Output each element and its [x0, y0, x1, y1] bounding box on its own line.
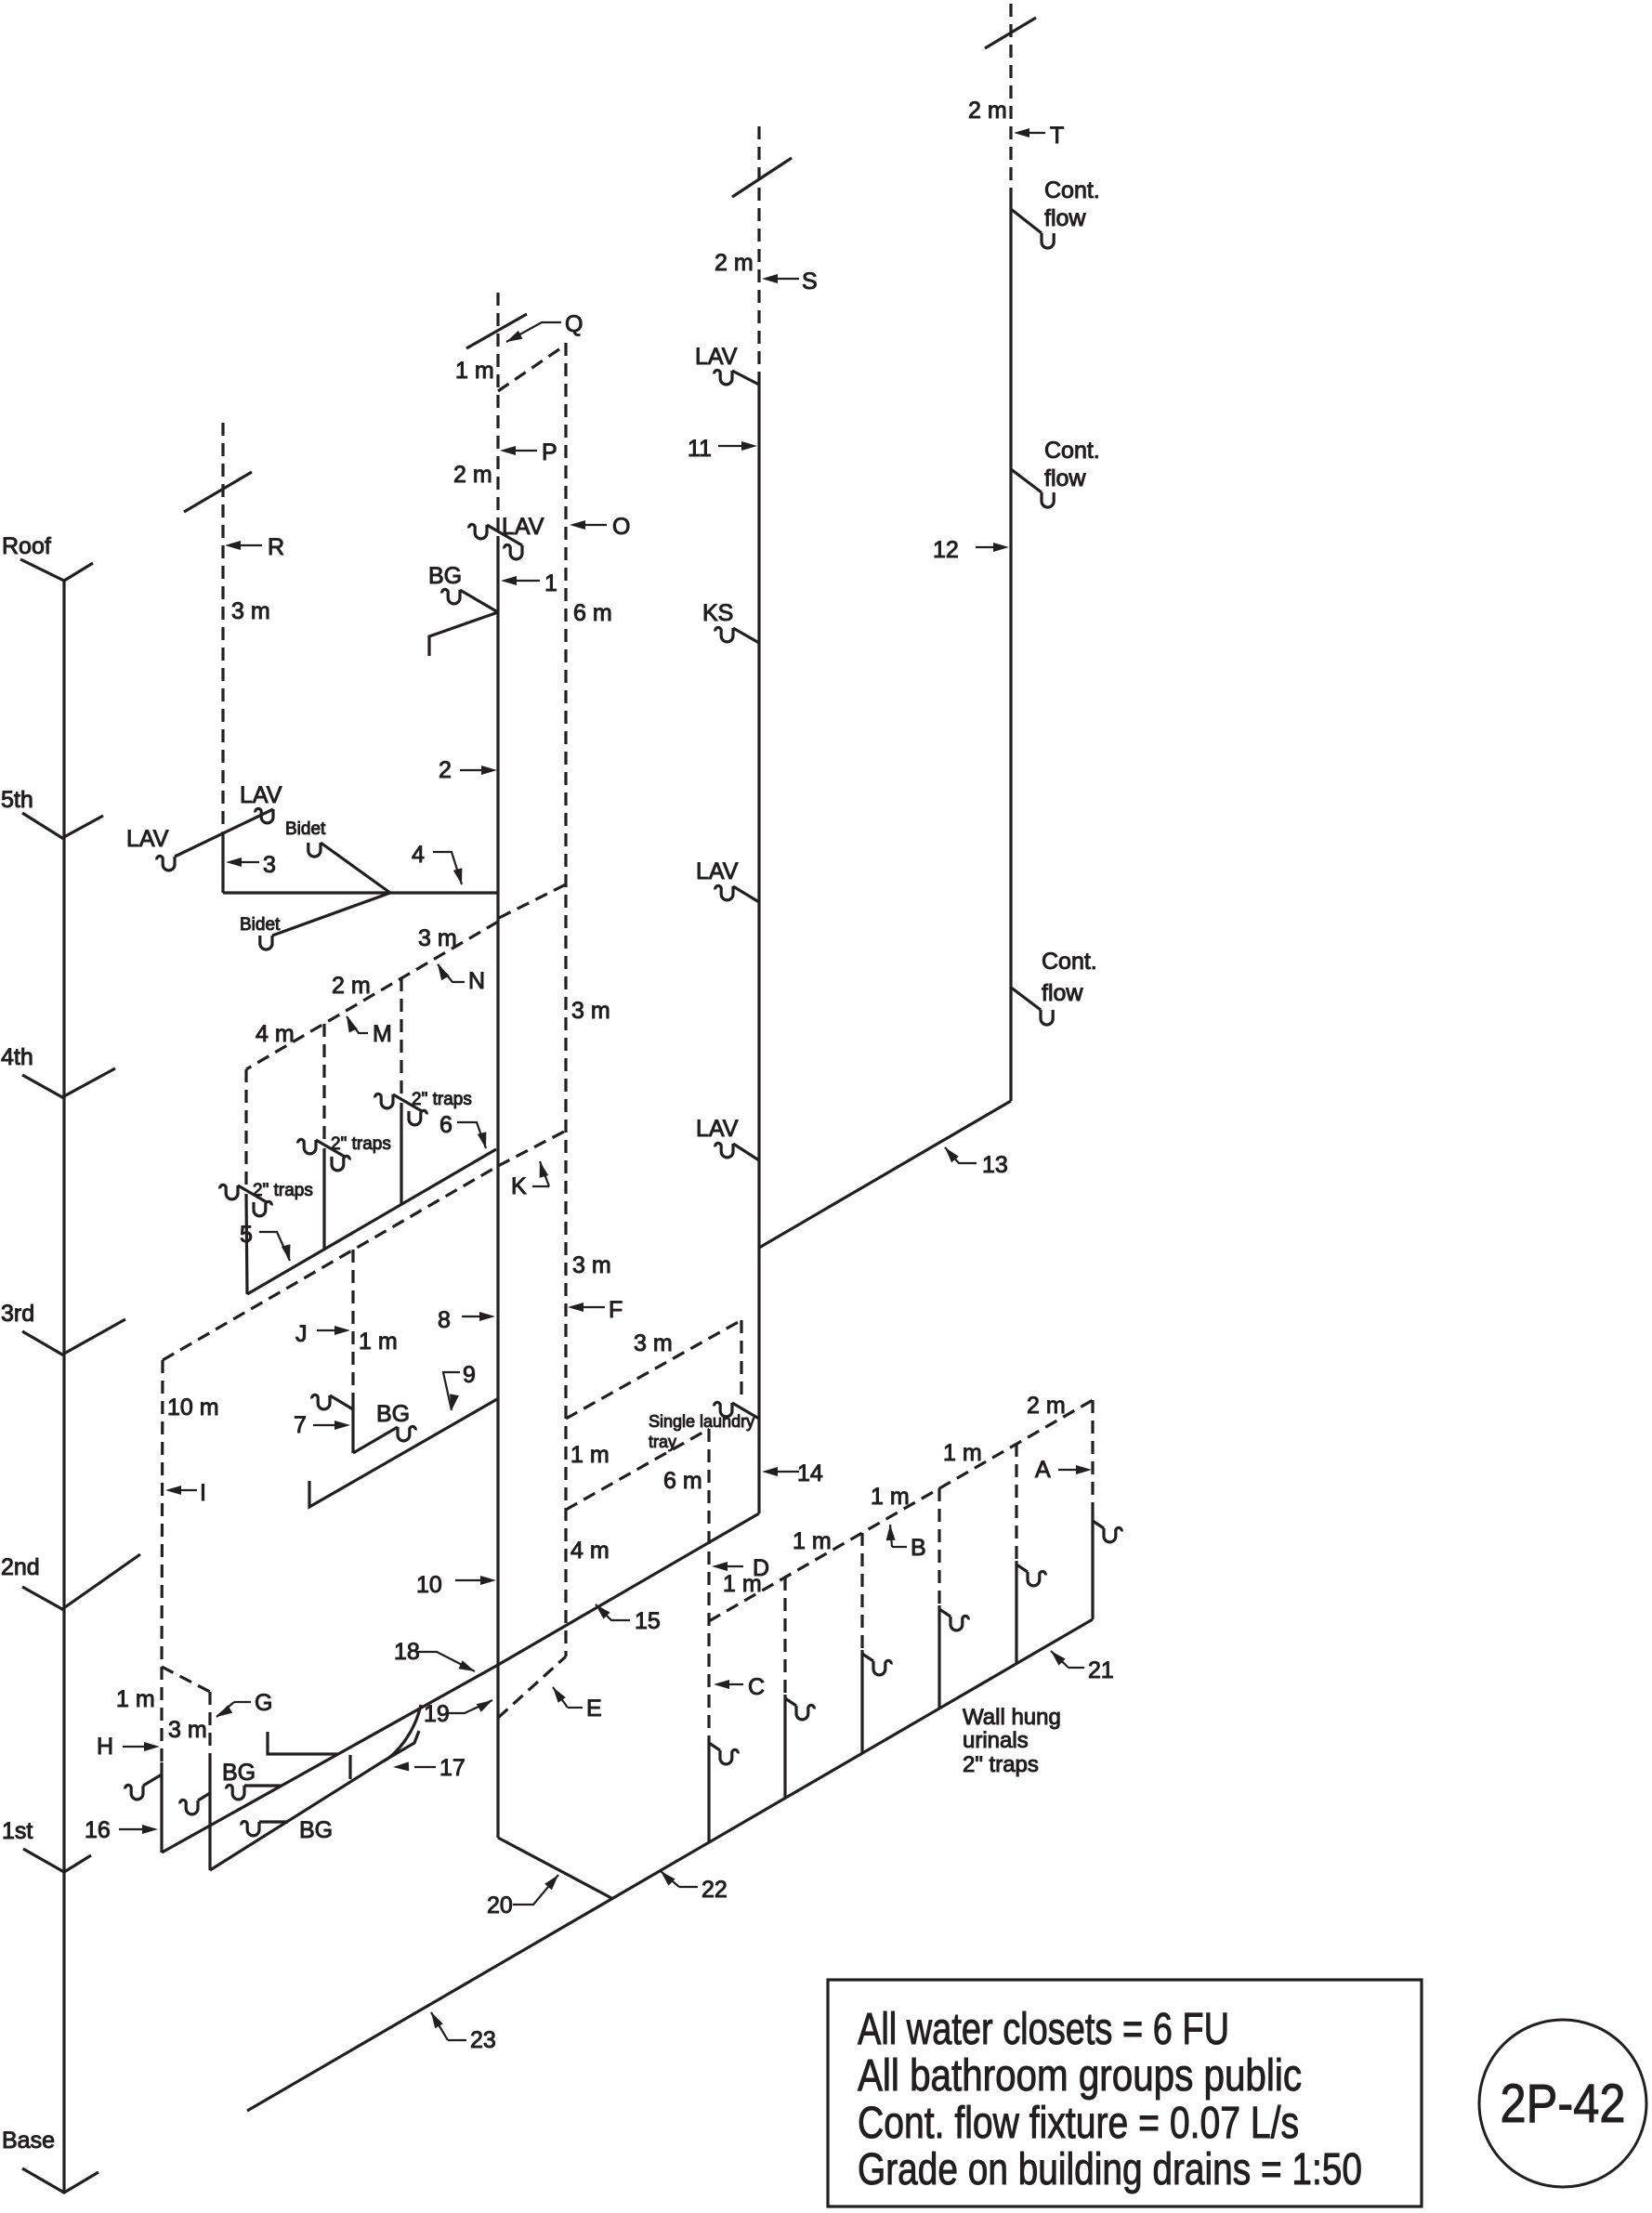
- svg-text:14: 14: [797, 1460, 823, 1486]
- svg-text:5th: 5th: [1, 787, 33, 813]
- BG3 connector stub: [353, 1427, 398, 1453]
- LAV pair branch stack1: [487, 525, 522, 545]
- fixture V2 trap pair: [298, 1139, 316, 1153]
- svg-text:2 m: 2 m: [332, 973, 371, 999]
- svg-text:2 m: 2 m: [715, 250, 754, 276]
- urinal 1 trap: [709, 1743, 720, 1750]
- stack S solid: [757, 385, 760, 1513]
- vent N connector to O line: [499, 884, 566, 918]
- vent T dashed riser: [1009, 4, 1012, 199]
- label 13 leader: [945, 1147, 977, 1163]
- svg-text:3 m: 3 m: [168, 1717, 207, 1743]
- urinal 3 vent dashed: [860, 1533, 863, 1650]
- pipe 17 branch (lower): [210, 1761, 383, 1870]
- Bidet 1 trap: [308, 843, 321, 857]
- svg-text:23: 23: [470, 2027, 496, 2053]
- laundry vent riser dashed: [740, 1320, 742, 1401]
- svg-text:LAV: LAV: [126, 826, 169, 852]
- cont flow 3 branch: [1010, 987, 1041, 1010]
- svg-text:4 m: 4 m: [256, 1021, 295, 1047]
- svg-text:10: 10: [416, 1572, 442, 1598]
- LAV trap on S low: [715, 1143, 733, 1157]
- vent I diagonal to stack: [163, 1166, 498, 1360]
- BG trap lower branch: [242, 1821, 259, 1835]
- svg-text:Single laundry: Single laundry: [649, 1412, 754, 1431]
- svg-text:Bidet: Bidet: [285, 819, 326, 839]
- floor tick Base: [22, 2168, 98, 2193]
- svg-text:1 m: 1 m: [871, 1484, 910, 1510]
- svg-text:O: O: [612, 514, 630, 540]
- svg-text:4th: 4th: [1, 1044, 33, 1070]
- BG3 trap: [398, 1426, 415, 1440]
- LAV trap upper: [256, 808, 273, 822]
- stack1 vent dashed (Q/P): [496, 293, 499, 536]
- LAV trap right stack1: [505, 544, 522, 558]
- vent Q break slash: [466, 314, 527, 348]
- urinal 4 vent dashed: [937, 1488, 940, 1605]
- laundry branch stub: [732, 1403, 759, 1419]
- floor reference spine: [62, 581, 65, 2193]
- svg-text:LAV: LAV: [696, 858, 739, 884]
- floor tick Roof: [20, 559, 93, 581]
- urinal 3 trap: [862, 1654, 873, 1661]
- fixture G trap: [180, 1800, 198, 1814]
- vent I riser dashed lower: [160, 1667, 163, 1762]
- pipe 5-6 branch diagonal: [247, 1149, 496, 1294]
- svg-text:G: G: [255, 1690, 272, 1716]
- fixture 7 branch: [330, 1395, 353, 1409]
- svg-text:3 m: 3 m: [572, 1252, 611, 1278]
- svg-text:3 m: 3 m: [571, 998, 610, 1024]
- pipe 17 wye curve: [383, 1705, 421, 1761]
- svg-text:H: H: [97, 1734, 113, 1760]
- vent O/F dashed riser: [564, 343, 567, 1656]
- pipe 16 branch (upper): [162, 1665, 498, 1853]
- floor tick 1st: [23, 1849, 91, 1872]
- svg-text:3rd: 3rd: [1, 1301, 34, 1327]
- vent D riser dashed: [707, 1429, 710, 1739]
- fixture G drain solid: [208, 1763, 211, 1870]
- cont flow 1 branch: [1011, 209, 1042, 233]
- Bidet 1 branch: [321, 843, 390, 893]
- arrow label 3: [237, 861, 259, 863]
- urinal 4 drain solid: [937, 1605, 940, 1709]
- urinal 5 drain solid: [1015, 1561, 1017, 1664]
- svg-text:flow: flow: [1044, 465, 1086, 491]
- fixture V3 trap pair: [375, 1093, 393, 1107]
- svg-text:3 m: 3 m: [634, 1330, 673, 1356]
- svg-text:5: 5: [240, 1222, 253, 1248]
- urinal vent header: [709, 1400, 1093, 1621]
- svg-text:C: C: [748, 1674, 765, 1700]
- svg-text:Cont.: Cont.: [1044, 438, 1100, 464]
- urinal 1 drain solid: [707, 1739, 710, 1842]
- svg-text:All water closets = 6 FU: All water closets = 6 FU: [858, 2005, 1229, 2054]
- arrow label 1: [512, 580, 540, 582]
- svg-text:2" traps: 2" traps: [963, 1752, 1039, 1777]
- vent R break slash: [184, 472, 252, 512]
- svg-text:20: 20: [487, 1892, 513, 1918]
- floor tick 2nd: [22, 1554, 140, 1609]
- arrow label A: [1058, 1469, 1081, 1471]
- svg-text:Base: Base: [2, 2128, 55, 2154]
- BG branch lower arm: [429, 612, 498, 656]
- vent N diagonal: [246, 922, 498, 1069]
- laundry trap: [715, 1402, 732, 1416]
- vent A drain solid: [1091, 1515, 1094, 1619]
- svg-text:1 m: 1 m: [793, 1528, 832, 1554]
- Bidet 2 branch: [272, 893, 390, 936]
- svg-text:Roof: Roof: [2, 533, 51, 559]
- vent A trap: [1093, 1521, 1104, 1528]
- svg-text:11: 11: [688, 436, 712, 462]
- svg-text:A: A: [1035, 1457, 1051, 1483]
- LAV trap on S mid: [715, 885, 733, 899]
- BG trap upper branch: [227, 1785, 244, 1799]
- LAV trap on S top: [715, 370, 732, 384]
- floor tick 4th: [22, 1068, 115, 1097]
- svg-text:K: K: [511, 1173, 527, 1199]
- svg-text:1 m: 1 m: [455, 358, 494, 384]
- arrow label 11: [718, 445, 746, 447]
- pipe 3 riser (solid): [221, 834, 224, 893]
- arrow label T: [1025, 132, 1045, 134]
- cont flow 2 branch: [1011, 469, 1042, 492]
- vent A dashed: [1091, 1400, 1094, 1515]
- urinal 5 vent dashed: [1015, 1444, 1017, 1561]
- svg-text:Grade on building drains = 1:5: Grade on building drains = 1:50: [858, 2145, 1362, 2194]
- svg-text:BG: BG: [299, 1817, 333, 1843]
- fixture V2 drain solid: [322, 1148, 325, 1250]
- arrow label P: [511, 450, 537, 452]
- svg-text:2" traps: 2" traps: [331, 1134, 391, 1154]
- svg-text:1 m: 1 m: [359, 1329, 398, 1355]
- vent K connector: [498, 1131, 566, 1166]
- WC tick upper branch: [268, 1732, 338, 1754]
- svg-text:BG: BG: [222, 1760, 256, 1786]
- vent R dashed riser: [221, 423, 224, 834]
- svg-text:B: B: [911, 1535, 926, 1561]
- vent T break slash: [985, 18, 1036, 48]
- svg-text:N: N: [468, 968, 485, 994]
- arrow label O: [581, 524, 607, 526]
- arrow label 8: [462, 1316, 484, 1317]
- svg-text:1 m: 1 m: [116, 1686, 155, 1712]
- svg-text:6: 6: [439, 1112, 452, 1138]
- svg-text:10 m: 10 m: [167, 1395, 219, 1421]
- svg-text:9: 9: [463, 1362, 476, 1388]
- svg-text:flow: flow: [1044, 205, 1086, 231]
- fixture H drain solid: [160, 1762, 163, 1853]
- arrow label C: [725, 1683, 743, 1685]
- arrow label H: [123, 1746, 149, 1748]
- floor tick 5th: [22, 813, 103, 838]
- svg-text:Cont.: Cont.: [1044, 177, 1100, 203]
- BG branch upper arm: [460, 590, 498, 612]
- vent E connector: [498, 1656, 566, 1718]
- svg-text:1 m: 1 m: [570, 1442, 610, 1468]
- svg-text:3 m: 3 m: [418, 925, 457, 951]
- pipe 20 elbow diagonal: [498, 1838, 613, 1899]
- svg-text:J: J: [295, 1321, 308, 1347]
- vent I riser dashed: [162, 1360, 163, 1667]
- pipe 21-22-23 building drain: [247, 1619, 1093, 2111]
- vent Q offset diagonal: [498, 345, 566, 391]
- svg-text:2" traps: 2" traps: [412, 1090, 472, 1109]
- svg-text:8: 8: [438, 1307, 451, 1333]
- svg-text:LAV: LAV: [696, 1116, 739, 1142]
- laundry vent horizontal run: [566, 1320, 741, 1419]
- fixture V2 vent dashed: [322, 1024, 325, 1140]
- pipe 15 diagonal: [498, 1513, 759, 1665]
- vent S break slash: [732, 158, 792, 197]
- BG trap: [442, 589, 460, 603]
- pipe 4 horizontal branch: [223, 891, 498, 894]
- svg-text:1: 1: [544, 570, 557, 596]
- legend box: [828, 1980, 1422, 2206]
- svg-text:2 m: 2 m: [1027, 1393, 1066, 1419]
- LAV trap lower: [157, 856, 175, 870]
- svg-text:19: 19: [424, 1701, 450, 1727]
- svg-text:I: I: [200, 1480, 206, 1506]
- svg-text:Wall hung: Wall hung: [963, 1705, 1061, 1730]
- svg-text:Cont. flow fixture = 0.07 L/s: Cont. flow fixture = 0.07 L/s: [858, 2099, 1299, 2148]
- svg-text:All bathroom groups public: All bathroom groups public: [858, 2051, 1302, 2101]
- LAV pair branch at R: [175, 809, 273, 857]
- svg-text:R: R: [268, 534, 284, 560]
- fixture V1 vent dashed: [244, 1069, 247, 1185]
- fixture V1 drain solid: [246, 1194, 247, 1294]
- arrow label S: [773, 278, 799, 280]
- fixture H trap: [125, 1785, 143, 1799]
- arrow label R: [236, 544, 262, 546]
- urinal 2 trap: [785, 1698, 796, 1706]
- urinal 5 trap: [1016, 1565, 1028, 1572]
- stack1 solid: [496, 536, 499, 1838]
- stack T solid: [1009, 199, 1012, 1101]
- vent D horizontal run: [566, 1429, 709, 1510]
- arrow label 10: [455, 1579, 485, 1581]
- sheet number circle: [1479, 2020, 1646, 2187]
- Bidet 2 trap: [260, 936, 272, 949]
- svg-text:4: 4: [412, 842, 425, 868]
- svg-text:7: 7: [294, 1412, 307, 1438]
- pipe 13 diagonal: [759, 1101, 1011, 1248]
- svg-text:13: 13: [982, 1152, 1008, 1178]
- label M leader: [347, 1016, 368, 1033]
- label 15 leader: [596, 1604, 630, 1620]
- svg-text:M: M: [373, 1021, 392, 1047]
- svg-text:F: F: [609, 1297, 623, 1323]
- svg-text:1 m: 1 m: [943, 1440, 982, 1466]
- svg-text:3: 3: [263, 852, 276, 878]
- vent S dashed riser: [757, 126, 760, 385]
- urinal 2 drain solid: [783, 1695, 786, 1798]
- svg-text:2 m: 2 m: [968, 98, 1007, 124]
- svg-text:15: 15: [635, 1608, 661, 1634]
- svg-text:2: 2: [439, 757, 452, 783]
- svg-text:LAV: LAV: [240, 782, 282, 808]
- urinal 3 drain solid: [860, 1650, 863, 1753]
- pipe 17 stub: [383, 1731, 419, 1761]
- fixture V1 trap pair: [220, 1185, 238, 1198]
- fixture J drain solid: [351, 1399, 354, 1453]
- svg-text:2nd: 2nd: [1, 1554, 40, 1580]
- svg-text:Cont.: Cont.: [1042, 949, 1097, 975]
- svg-text:BG: BG: [428, 563, 462, 589]
- svg-text:6 m: 6 m: [663, 1468, 702, 1494]
- svg-text:2 m: 2 m: [453, 462, 492, 488]
- vent J dashed: [351, 1250, 354, 1399]
- svg-text:S: S: [802, 268, 818, 295]
- svg-text:T: T: [1050, 123, 1064, 149]
- arrow label I: [177, 1489, 197, 1491]
- fixture V3 vent dashed: [400, 978, 402, 1094]
- pipe 9 branch diagonal: [309, 1399, 497, 1507]
- fixture V3 drain solid: [400, 1103, 402, 1204]
- arrow label 14: [773, 1471, 799, 1473]
- arrow label D: [723, 1565, 743, 1567]
- svg-text:22: 22: [701, 1877, 728, 1903]
- svg-text:P: P: [542, 439, 557, 465]
- svg-text:BG: BG: [376, 1401, 410, 1427]
- vent G dashed: [208, 1692, 211, 1763]
- label N leader: [438, 964, 465, 982]
- LAV trap left stack1: [469, 524, 487, 538]
- svg-text:16: 16: [85, 1817, 111, 1843]
- svg-text:17: 17: [439, 1755, 465, 1781]
- svg-text:KS: KS: [702, 600, 733, 626]
- svg-text:2P-42: 2P-42: [1501, 2074, 1626, 2134]
- floor tick 3rd: [22, 1319, 125, 1355]
- KS trap: [715, 627, 733, 641]
- svg-text:3 m: 3 m: [231, 598, 270, 624]
- urinal 2 vent dashed: [783, 1578, 786, 1695]
- svg-text:flow: flow: [1042, 980, 1083, 1006]
- arrow label 2: [460, 769, 486, 771]
- arrow label J: [317, 1329, 339, 1331]
- arrow label 12: [976, 546, 998, 548]
- urinal 4 trap: [939, 1609, 951, 1617]
- svg-text:21: 21: [1088, 1657, 1114, 1683]
- svg-text:6 m: 6 m: [573, 600, 612, 626]
- svg-text:E: E: [586, 1696, 602, 1722]
- arrow label 7: [313, 1424, 339, 1426]
- svg-text:Q: Q: [565, 311, 583, 337]
- svg-text:1 m: 1 m: [723, 1571, 762, 1597]
- WC tick lower branch: [348, 1755, 351, 1779]
- svg-text:18: 18: [394, 1639, 420, 1665]
- svg-text:Bidet: Bidet: [240, 915, 281, 935]
- fixture 7 trap: [312, 1395, 330, 1408]
- svg-text:4 m: 4 m: [570, 1538, 610, 1564]
- svg-text:12: 12: [933, 537, 959, 563]
- svg-text:1st: 1st: [2, 1818, 33, 1844]
- svg-text:LAV: LAV: [695, 344, 738, 370]
- svg-text:LAV: LAV: [502, 514, 544, 540]
- vent I to G jog: [162, 1667, 210, 1692]
- svg-text:2" traps: 2" traps: [253, 1181, 313, 1200]
- svg-text:urinals: urinals: [963, 1728, 1029, 1753]
- arrow label 16: [119, 1828, 147, 1830]
- arrow label F: [579, 1306, 605, 1308]
